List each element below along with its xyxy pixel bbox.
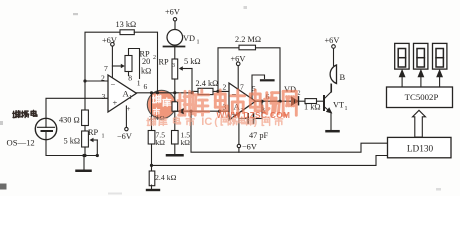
svg-text:(: ( — [214, 116, 218, 128]
resistor 430ohm — [59, 81, 88, 131]
svg-text:2: 2 — [223, 83, 227, 92]
svg-text:RP: RP — [159, 58, 170, 67]
A1 output wire — [137, 92, 194, 94]
svg-text:LD130: LD130 — [407, 145, 434, 155]
watermark logo — [147, 90, 175, 118]
diode VD2 — [284, 85, 305, 105]
svg-text:B: B — [340, 72, 346, 82]
arrow TC5002P to digit 2 — [418, 70, 423, 87]
svg-text:7: 7 — [240, 83, 244, 92]
ground 1.5k — [167, 154, 183, 157]
pot RP2 20k offset — [112, 49, 156, 79]
svg-text:2.4 kΩ: 2.4 kΩ — [196, 79, 219, 88]
svg-text:−: − — [232, 89, 237, 99]
svg-text:IC: IC — [201, 116, 212, 128]
+6V supply A2 — [231, 54, 246, 89]
svg-text:1: 1 — [345, 106, 348, 112]
pot RP1 5k — [64, 128, 105, 157]
svg-text:VD: VD — [183, 34, 195, 43]
svg-text:TC5002P: TC5002P — [405, 92, 439, 102]
svg-text:3: 3 — [102, 92, 106, 101]
junction mid resistor — [173, 91, 176, 94]
A2 pin3 wire — [175, 109, 229, 114]
diode VD1 — [164, 30, 200, 60]
block LD130 — [388, 137, 452, 157]
feedback 2.2M — [216, 35, 281, 103]
scan speck top — [73, 6, 247, 15]
wire sensor bottom bus — [46, 140, 97, 156]
display digit 1 — [395, 43, 409, 69]
svg-text:+: + — [113, 98, 118, 108]
watermark text line 1 — [178, 90, 296, 115]
wire sensor to A1 pin3 — [46, 98, 108, 118]
svg-text:−: − — [111, 79, 116, 89]
svg-text:−6V: −6V — [242, 142, 257, 151]
A2 pin5 comp ground — [252, 75, 274, 99]
sensor OS-12 — [35, 118, 56, 139]
svg-text:5 kΩ: 5 kΩ — [184, 57, 201, 66]
transistor VT1 — [324, 84, 348, 130]
pot RP3 5k — [159, 57, 201, 94]
arrow TC5002P to digit 1 — [400, 70, 405, 87]
bus divider to LD130 — [150, 156, 388, 167]
scan speck bottom — [108, 188, 441, 195]
svg-text:5 kΩ: 5 kΩ — [64, 136, 81, 145]
op-amp A1 — [101, 64, 148, 112]
scan smudge left edge — [0, 121, 7, 190]
svg-text:3: 3 — [172, 63, 175, 69]
svg-text:2: 2 — [153, 55, 156, 61]
watermark text line 2 — [147, 116, 283, 128]
svg-text:kΩ: kΩ — [141, 67, 151, 76]
A2 output wire — [256, 100, 292, 102]
ground left — [77, 154, 91, 171]
resistor 13k feedback — [85, 20, 158, 93]
display digit 2 — [414, 43, 428, 69]
resistor 1k — [304, 99, 323, 112]
svg-text:6: 6 — [144, 82, 148, 91]
svg-text:−6V: −6V — [117, 132, 132, 141]
buzzer B — [330, 48, 345, 92]
svg-text:): ) — [254, 116, 257, 128]
svg-text:kΩ: kΩ — [181, 138, 191, 147]
arrow TC5002P to digit 3 — [437, 70, 442, 87]
wire down to 7.5k — [151, 93, 153, 131]
svg-text:+6V: +6V — [325, 36, 340, 45]
svg-text:+: + — [127, 105, 131, 113]
resistor 1.5k — [172, 131, 191, 155]
resistor 2.4k mid vertical — [149, 93, 178, 131]
rail -6V to LD130 — [189, 110, 387, 153]
svg-text:20: 20 — [142, 57, 150, 66]
junction 7.5k tap — [150, 91, 153, 94]
wire pin2 node — [83, 79, 108, 82]
svg-text:OS—12: OS—12 — [7, 137, 35, 147]
resistor 2.4k bottom — [149, 165, 176, 189]
svg-text:2: 2 — [298, 91, 301, 97]
resistor 7.5k — [148, 131, 165, 166]
ground bottom — [147, 189, 159, 191]
+6V supply VT1 — [325, 36, 340, 48]
display digit 3 — [433, 43, 447, 69]
op-amp A2 — [223, 83, 270, 121]
hollow arrow LD130 to TC5002P — [413, 110, 426, 137]
svg-text:+6V: +6V — [165, 8, 180, 17]
capacitor 47pF — [239, 100, 269, 140]
A2 pin4 to -6V rail — [237, 113, 257, 152]
+6V supply A1 — [102, 36, 117, 78]
svg-text:2: 2 — [101, 74, 105, 83]
svg-text:8: 8 — [128, 74, 132, 83]
resistor 2.4k horizontal — [193, 79, 229, 95]
sensor label OS-12 — [7, 137, 35, 147]
svg-text:RP: RP — [88, 128, 99, 137]
svg-text:1: 1 — [197, 40, 200, 46]
svg-text:1: 1 — [102, 134, 105, 140]
watermark url — [217, 110, 291, 120]
svg-text:1: 1 — [129, 95, 132, 101]
svg-text:VT: VT — [333, 101, 344, 110]
svg-text:2.2 MΩ: 2.2 MΩ — [235, 35, 261, 44]
svg-text:2.4 kΩ: 2.4 kΩ — [155, 173, 177, 182]
junction 13k — [156, 91, 159, 94]
svg-text:47 pF: 47 pF — [249, 131, 269, 140]
svg-text:1: 1 — [137, 79, 141, 88]
A1 pin4 to -6V — [117, 105, 132, 141]
svg-text:7: 7 — [104, 64, 108, 73]
svg-text:kΩ: kΩ — [156, 138, 166, 147]
ground emitter — [327, 130, 339, 133]
block TC5002P — [387, 87, 453, 108]
svg-text:1 kΩ: 1 kΩ — [304, 103, 321, 112]
svg-text:13 kΩ: 13 kΩ — [116, 20, 137, 29]
sensor label — [13, 110, 37, 117]
+6V supply VD1 — [165, 8, 180, 30]
svg-text:430 Ω: 430 Ω — [59, 115, 80, 124]
